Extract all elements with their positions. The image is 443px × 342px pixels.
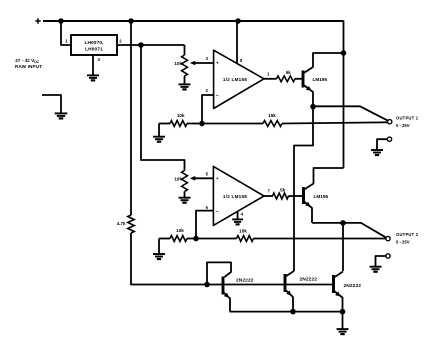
Q6 collector [334,272,343,278]
label: LM195 Q2 [314,194,329,199]
svg-text:+: + [216,61,219,66]
wire: rail to 4.7k [130,21,132,215]
svg-text:15k: 15k [268,113,276,118]
wire: 15k ch2 to output terminal [254,238,387,240]
label: 2N2222 Q6 [344,283,362,289]
label: 5k ch1 [286,70,292,75]
svg-text:5k: 5k [286,70,292,75]
terminal: output 2 return [386,254,390,258]
ground: mirror emitter rail [337,329,349,334]
node: rail junction to 4.7k branch [128,18,134,24]
ground: op-amp B pin 4 [232,219,243,224]
label: LM195 Q1 [313,77,328,82]
label: 10k pot1 [174,61,182,66]
svg-text:OUTPUT 2: OUTPUT 2 [396,232,419,237]
pin 2 label op-amp A [206,88,209,93]
svg-text:4.7k: 4.7k [117,221,126,226]
node: Q1 collector to +V line [341,50,347,56]
node: rail junction to op-amp pin 8 [235,18,241,24]
svg-text:1: 1 [267,72,270,77]
wire: raw input minus lead [42,95,61,113]
svg-text:5: 5 [206,172,209,177]
wire: emitter node to output 1 terminal [313,106,388,120]
svg-text:2N2222: 2N2222 [300,277,318,283]
wire: ground to 10k ch2 [159,238,170,240]
label: 2N2222 Q5 [300,277,318,283]
label: 15k fb ch2 [239,228,247,233]
wire: inverting input ch1 [202,95,214,124]
wire: op-amp A pin 8 supply [236,21,238,63]
svg-text:2: 2 [206,88,209,93]
svg-text:0 - 25V: 0 - 25V [396,240,410,245]
resistor 10k feedback ch1 [170,121,187,127]
label: 10k fb ch1 [177,113,185,118]
label: OUTPUT 2 [396,232,419,245]
wire: 10k to junction ch2 [187,238,196,240]
svg-text:LM195: LM195 [314,194,329,199]
wire: feedback ch1 ground stem [158,124,160,137]
Q4 emitter [223,292,230,312]
wire: +V vertical branch [343,21,345,169]
svg-text:−: − [216,93,219,99]
svg-text:10k: 10k [174,61,182,66]
label: 5k ch2 [280,187,286,192]
wire: pot1 to ground [184,76,186,84]
wire: 5k to Q2 base [289,195,303,197]
label: 27-32 VDC RAW INPUT [15,58,42,69]
transistor Q2 LM195 bar [302,187,305,204]
Q5 collector [286,271,295,277]
wire: output1 node to Q5 collector [294,107,313,271]
ground: raw input return [55,113,68,118]
svg-text:+: + [216,176,219,181]
svg-text:10k: 10k [176,228,184,233]
wire: junction to 15k ch2 [196,238,237,240]
wire: op-amp B pin 4 stem [237,212,239,219]
svg-text:10k: 10k [174,176,182,181]
svg-text:−: − [216,209,219,215]
plus terminal of raw input [35,18,40,23]
wire: pot2 to ground [184,192,186,198]
svg-text:1: 1 [65,39,68,44]
svg-text:6: 6 [206,205,209,210]
node: Q5 emitter junction [290,309,296,315]
label: OUTPUT 1 [396,115,419,128]
terminal: output 1 return [387,137,391,141]
ground: pot1 [179,84,191,89]
wire: 5k to Q1 base [295,78,302,80]
wire: output2 node to Q6 collector [342,223,344,271]
pin 7 label op-amp B [268,189,271,194]
pin 4 label [241,212,244,217]
wire: junction to 15k ch1 [202,123,263,125]
wire: output 2 return to ground [376,256,387,266]
wiper arrow pot2 [190,176,214,181]
wire: mirror base line [207,284,334,286]
wire: op-amp A output [264,78,277,80]
label: 2N2222 Q4 [236,277,254,283]
resistor 5k channel 2 [273,193,289,199]
wire: +V top rail [43,20,344,22]
node: mirror base / Q4 collector junction [204,282,210,288]
transistor Q1 LM195 bar [302,71,305,88]
svg-text:3: 3 [206,56,209,61]
resistor 15k feedback ch1 [263,121,282,127]
wire: emitter node to output 2 terminal [343,223,386,238]
node: pin 2 wire branch junction [138,42,144,48]
wire: Q2 emitter horizontal [312,222,343,224]
wire: op-amp B output [264,195,273,197]
wire: 15k ch1 to output terminal [282,122,388,123]
pin 1 label op-amp A [267,72,270,77]
potentiometer 10k channel 2 [182,171,188,192]
pin 6 label op-amp B [206,205,209,210]
ground: feedback divider ch2 [153,254,165,259]
node: output 1 emitter junction [310,104,316,110]
Q6 emitter [334,291,343,312]
Q1 collector [303,53,344,74]
ground: output 2 return [370,267,382,272]
svg-text:10k: 10k [177,113,185,118]
pin 3 label of U1 [98,57,101,62]
wire: mirror emitter rail [230,311,343,313]
svg-text:LM195: LM195 [313,77,328,82]
node: rail junction to reference pin 1 [58,18,64,24]
svg-text:1/2 LM158: 1/2 LM158 [223,194,247,199]
potentiometer 10k channel 1 [182,55,188,76]
pin 5 label op-amp B [206,172,209,177]
ground: output 1 return [371,150,383,155]
svg-text:8: 8 [240,58,243,63]
svg-text:LH0070,: LH0070, [84,40,104,46]
Q1 emitter [303,85,313,107]
resistor 5k channel 1 [277,76,295,82]
svg-text:7: 7 [268,189,271,194]
transistor Q4 2N2222 bar [222,277,225,295]
svg-text:LH0071: LH0071 [85,46,103,52]
label: 10k fb ch2 [176,228,184,233]
wire: feedback ch2 ground stem [158,239,160,254]
wire: inverting input ch2 [196,211,213,239]
wire: reference output pin 2 to pots [117,44,185,46]
transistor Q5 2N2222 bar [284,274,287,292]
resistor 4.7k [128,215,134,233]
Q5 emitter [286,290,294,312]
wire: 4.7k to mirror base line [131,233,207,285]
svg-text:1/2 LM158: 1/2 LM158 [223,77,247,82]
wire: rail to ground [342,312,344,329]
pin 8 label [240,58,243,63]
label: 4.7k [117,221,126,226]
svg-text:2N2222: 2N2222 [344,283,362,289]
pin 3 label op-amp A [206,56,209,61]
node: Q6 emitter / ground junction [340,309,346,315]
svg-text:27 - 32 VDC: 27 - 32 VDC [15,58,39,64]
wire: 10k to junction ch1 [187,123,202,125]
terminal: output 1 [388,120,392,124]
label: 10k pot2 [174,176,182,181]
svg-text:2: 2 [119,39,122,44]
wire: rail to reference pin 1 [61,21,71,45]
svg-text:5k: 5k [280,187,286,192]
wire: reference pin 3 down [92,55,94,75]
op-amp U2B 1/2 LM158 [213,166,264,225]
ground: pot2 [179,198,191,203]
label: 15k fb ch1 [268,113,276,118]
op-amp U2A 1/2 LM158 [214,50,264,108]
wiper arrow pot1 [190,61,214,66]
svg-text:0 - 25V: 0 - 25V [396,123,410,128]
transistor Q6 2N2222 bar [332,275,335,293]
Q2 collector [304,168,344,190]
node: output 2 emitter junction [340,220,346,226]
pin 1 label of U1 [65,39,68,44]
wire: ground to 10k ch1 [159,123,170,125]
pin 2 label of U1 [119,39,122,44]
svg-text:OUTPUT 1: OUTPUT 1 [396,115,419,120]
wire: reference to pot2 feed [141,45,185,171]
svg-text:15k: 15k [239,228,247,233]
ground: reference pin 3 [87,75,99,80]
voltage reference U1 LH0070/LH0071 [71,35,117,55]
wire: output 1 return to ground [377,139,387,149]
svg-text:RAW INPUT: RAW INPUT [15,64,42,69]
resistor 10k feedback ch2 [170,236,187,242]
svg-text:3: 3 [98,57,101,62]
ground: feedback divider ch1 [153,137,165,142]
svg-text:4: 4 [241,212,244,217]
Q2 emitter [304,201,313,223]
terminal: output 2 [386,236,390,240]
node: feedback junction ch1 [199,121,205,127]
resistor 15k feedback ch2 [237,236,254,242]
svg-text:2N2222: 2N2222 [236,277,254,283]
node: feedback junction ch2 [193,236,199,242]
Q4 collector loop [207,262,231,284]
wire: pot1 top feed [184,45,186,55]
